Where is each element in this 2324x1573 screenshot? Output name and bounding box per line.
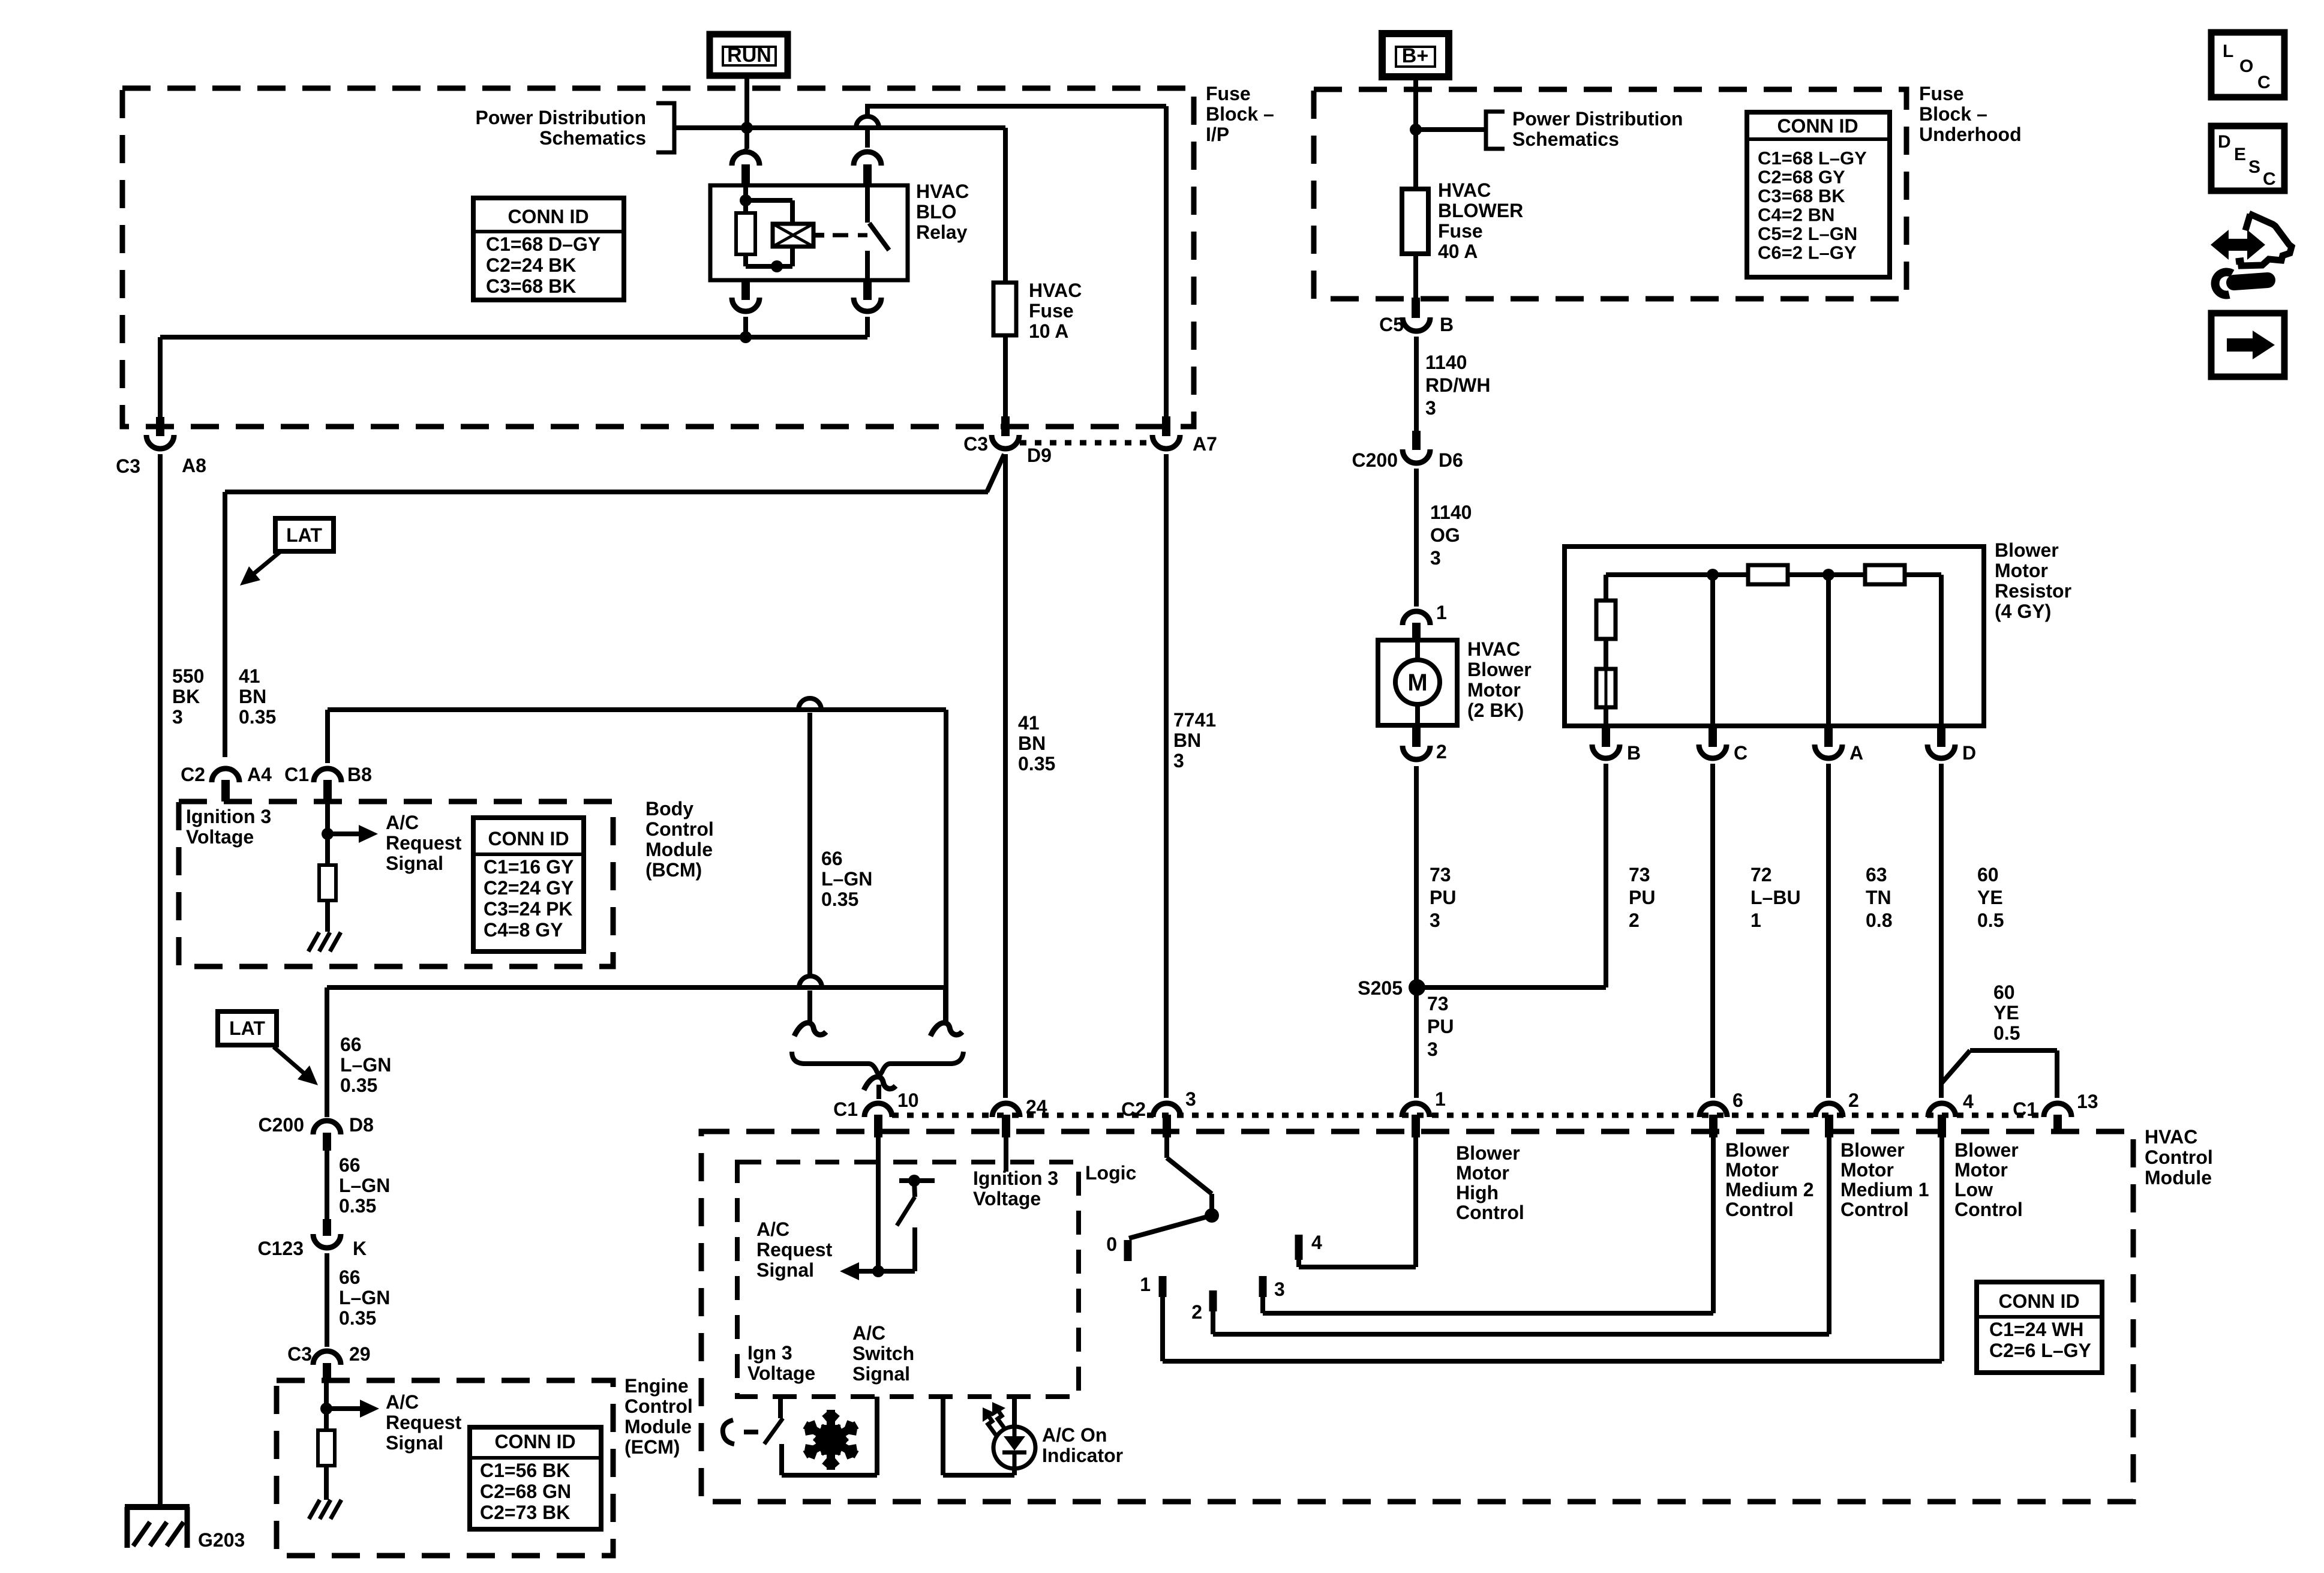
node relay coil return junction — [740, 331, 752, 343]
label 63 TN 0.8 — [1866, 864, 1892, 931]
relay coil to switch dashed link — [813, 233, 867, 238]
svg-text:Control: Control — [1840, 1199, 1909, 1220]
svg-text:O: O — [2239, 56, 2253, 76]
node junction RUN/power-dist — [741, 122, 753, 134]
fuse block I/P dashed box — [122, 88, 1194, 427]
svg-text:PU: PU — [1430, 887, 1456, 908]
label A/C On Indicator — [1042, 1424, 1123, 1466]
svg-text:HVAC: HVAC — [916, 181, 969, 202]
svg-text:13: 13 — [2077, 1091, 2098, 1112]
svg-text:66: 66 — [821, 848, 843, 869]
thermal limiter element — [1596, 639, 1616, 726]
svg-text:PU: PU — [1427, 1016, 1454, 1037]
svg-text:A/C: A/C — [852, 1322, 885, 1344]
resistor pin D — [1927, 726, 1976, 764]
I/P CONN ID table — [473, 198, 624, 300]
svg-text:A7: A7 — [1193, 433, 1217, 455]
logic dashed box — [737, 1162, 1079, 1397]
wire motor to S205 — [1414, 766, 1419, 1098]
svg-text:0.35: 0.35 — [821, 888, 858, 910]
svg-text:M: M — [1407, 670, 1427, 696]
underhood CONN ID table — [1747, 112, 1890, 277]
label 7741 BN 3 — [1173, 709, 1216, 772]
svg-text:Low: Low — [1954, 1179, 1993, 1200]
AC On indicator loop — [943, 1397, 1014, 1475]
svg-text:Fuse: Fuse — [1438, 220, 1483, 242]
svg-text:0.5: 0.5 — [1993, 1022, 2020, 1044]
label A/C Request Signal (ECM) — [386, 1391, 462, 1454]
svg-text:C3=68 BK: C3=68 BK — [486, 275, 576, 297]
svg-text:C2=6 L–GY: C2=6 L–GY — [1989, 1340, 2091, 1361]
svg-text:41: 41 — [239, 665, 260, 687]
svg-text:LAT: LAT — [286, 524, 322, 546]
svg-text:A8: A8 — [182, 455, 206, 476]
svg-text:A/C: A/C — [386, 812, 419, 833]
ground G203 — [125, 1507, 190, 1548]
svg-text:3: 3 — [1430, 547, 1441, 569]
svg-text:C6=2 L–GY: C6=2 L–GY — [1758, 242, 1857, 263]
svg-text:BN: BN — [1018, 733, 1046, 754]
svg-text:Request: Request — [756, 1239, 833, 1260]
svg-text:Control: Control — [1725, 1199, 1794, 1220]
svg-text:C3: C3 — [963, 433, 988, 455]
svg-text:L–GN: L–GN — [339, 1175, 390, 1196]
svg-text:Fuse: Fuse — [1029, 300, 1074, 322]
svg-text:Module: Module — [2145, 1167, 2212, 1188]
connector dotted link D9-A7 — [1020, 440, 1152, 446]
svg-text:HVAC: HVAC — [2145, 1126, 2197, 1148]
svg-text:C123: C123 — [258, 1238, 304, 1259]
label A/C Request Signal (BCM) — [386, 812, 462, 874]
wire S205 to resistor B — [1417, 764, 1606, 987]
svg-text:Blower: Blower — [1840, 1139, 1905, 1161]
svg-text:C1=24 WH: C1=24 WH — [1989, 1319, 2083, 1340]
svg-text:Request: Request — [386, 832, 462, 854]
svg-text:Module: Module — [624, 1416, 692, 1437]
svg-text:Fuse: Fuse — [1206, 83, 1251, 104]
svg-text:Control: Control — [1954, 1199, 2023, 1220]
label Blower Motor Medium 1 Control — [1840, 1139, 1929, 1220]
svg-text:Medium 2: Medium 2 — [1725, 1179, 1814, 1200]
AC request arrow (logic) — [840, 1262, 878, 1280]
svg-text:L–GN: L–GN — [339, 1287, 390, 1308]
svg-text:0.5: 0.5 — [1977, 909, 2004, 931]
svg-text:A4: A4 — [247, 764, 272, 785]
icon double arrow — [2211, 230, 2265, 260]
HVAC control module dashed box — [701, 1131, 2133, 1502]
svg-text:D: D — [1962, 742, 1976, 764]
label Ignition 3 Voltage (BCM) — [186, 806, 271, 848]
icon arrow box — [2211, 313, 2284, 377]
selector contact 1 — [1140, 1274, 1163, 1297]
svg-text:72: 72 — [1750, 864, 1772, 885]
svg-text:Motor: Motor — [1840, 1159, 1894, 1181]
svg-text:LAT: LAT — [229, 1017, 265, 1039]
label HVAC BLO Relay — [916, 181, 969, 243]
wire 550 BK 3 (A8 to G203) — [158, 454, 163, 1507]
svg-text:Power Distribution: Power Distribution — [1512, 108, 1683, 130]
svg-text:A/C On: A/C On — [1042, 1424, 1107, 1446]
label HVAC Control Module — [2145, 1126, 2213, 1188]
svg-text:D: D — [2218, 132, 2231, 152]
AC request switch (logic) — [872, 1137, 935, 1277]
connector 6 — [1700, 1089, 1743, 1137]
svg-text:0: 0 — [1106, 1233, 1117, 1255]
svg-text:RD/WH: RD/WH — [1425, 374, 1490, 396]
svg-text:Motor: Motor — [1467, 679, 1521, 701]
svg-text:C1=56 BK: C1=56 BK — [480, 1460, 570, 1481]
selector contact 0 — [1106, 1233, 1128, 1261]
label Engine Control Module ECM — [624, 1375, 693, 1458]
label 72 L-BU 1 — [1750, 864, 1801, 931]
relay switch top pin connector — [854, 130, 881, 185]
svg-text:C: C — [2257, 73, 2271, 92]
svg-text:C2=24 BK: C2=24 BK — [486, 254, 576, 276]
svg-text:3: 3 — [1274, 1278, 1285, 1300]
svg-text:0.35: 0.35 — [239, 706, 276, 728]
label Blower Motor Low Control — [1954, 1139, 2023, 1220]
svg-text:Signal: Signal — [386, 852, 443, 874]
connector 24 — [992, 1096, 1047, 1172]
wire 41 BN 0.35 (D9 to pin24) — [1003, 454, 1008, 1098]
svg-text:C: C — [1734, 742, 1747, 764]
svg-text:Ignition 3: Ignition 3 — [973, 1167, 1058, 1189]
label Ign 3 Voltage — [747, 1342, 815, 1384]
svg-text:0.35: 0.35 — [339, 1307, 376, 1329]
wire junction to HVAC fuse — [686, 125, 1005, 130]
wire resistor C to module pin6 — [1710, 764, 1715, 1098]
svg-text:C1=68 D–GY: C1=68 D–GY — [486, 233, 600, 255]
svg-text:HVAC: HVAC — [1438, 179, 1491, 201]
HVAC blower motor box — [1378, 640, 1457, 725]
label 73 PU 2 — [1629, 864, 1655, 931]
ECM CONN ID table — [470, 1427, 601, 1529]
label Ignition 3 Voltage (logic) — [973, 1167, 1058, 1209]
svg-text:Motor: Motor — [1456, 1162, 1509, 1184]
wire 1140 OG — [1414, 469, 1419, 607]
label 1140 OG 3 — [1430, 502, 1472, 569]
label Fuse Block I/P — [1206, 83, 1274, 145]
svg-text:40 A: 40 A — [1438, 241, 1478, 262]
svg-text:C2: C2 — [181, 764, 205, 785]
wire resistor A to module pin2 — [1826, 764, 1831, 1098]
wire 41 BN 0.35 (D9 to BCM A4) — [225, 454, 1004, 757]
resistor element R2 horizontal — [1865, 565, 1905, 584]
svg-text:550: 550 — [172, 665, 204, 687]
svg-text:Blower: Blower — [1954, 1139, 2019, 1161]
svg-text:BLOWER: BLOWER — [1438, 200, 1523, 221]
connector C1 10 — [833, 1089, 919, 1137]
svg-text:Blower: Blower — [1467, 659, 1532, 680]
svg-text:C: C — [2263, 169, 2276, 189]
svg-text:3: 3 — [172, 706, 183, 728]
AC compressor switch (module) — [723, 1397, 783, 1444]
label Fuse Block Underhood — [1919, 83, 2022, 145]
fuse HVAC 10A — [993, 128, 1016, 418]
svg-text:C5=2 L–GN: C5=2 L–GN — [1758, 223, 1857, 244]
svg-text:1140: 1140 — [1430, 502, 1472, 523]
blower selector pivot — [1205, 1208, 1219, 1223]
svg-text:Blower: Blower — [1456, 1142, 1520, 1164]
relay coil link wires — [746, 200, 792, 272]
label 66 L-GN 0.35 (mid) — [339, 1154, 390, 1217]
svg-text:2: 2 — [1629, 909, 1640, 931]
svg-text:Schematics: Schematics — [1512, 128, 1619, 150]
fuse block underhood dashed box — [1314, 89, 1906, 299]
ECM ground — [309, 1466, 341, 1519]
relay coil bottom pin connector — [732, 280, 759, 337]
selector contact 2 — [1191, 1290, 1213, 1323]
svg-text:L–GN: L–GN — [340, 1054, 391, 1076]
svg-text:TN: TN — [1866, 887, 1891, 908]
svg-text:4: 4 — [1963, 1091, 1974, 1112]
module CONN ID table — [1977, 1282, 2102, 1373]
connector C3 A8 — [116, 417, 206, 477]
svg-text:1140: 1140 — [1425, 352, 1467, 373]
svg-text:B8: B8 — [347, 764, 372, 785]
svg-text:BK: BK — [172, 686, 200, 707]
label Blower Motor High Control — [1456, 1142, 1524, 1223]
svg-text:RUN: RUN — [727, 44, 771, 67]
svg-text:A/C: A/C — [756, 1218, 789, 1240]
motor pin 2 connector — [1403, 725, 1447, 763]
callout LAT 2 — [218, 1011, 318, 1085]
svg-text:Request: Request — [386, 1412, 462, 1433]
svg-text:Fuse: Fuse — [1919, 83, 1964, 104]
svg-text:HVAC: HVAC — [1467, 638, 1520, 660]
svg-text:60: 60 — [1977, 864, 1999, 885]
svg-text:1: 1 — [1750, 909, 1761, 931]
resistor element vertical — [1596, 601, 1616, 639]
label A/C Request Signal (logic) — [756, 1218, 833, 1281]
splice brace — [792, 1052, 963, 1076]
svg-text:BN: BN — [1173, 730, 1201, 751]
svg-text:C2=24 GY: C2=24 GY — [484, 877, 574, 899]
wire resistor D to module pin4 — [1939, 764, 1944, 1098]
icon wrench — [2215, 272, 2268, 295]
svg-text:C5: C5 — [1379, 314, 1404, 335]
BCM ground — [308, 900, 341, 951]
icon LOC box — [2211, 32, 2284, 97]
relay coil top pin connector — [732, 149, 759, 185]
svg-text:0.8: 0.8 — [1866, 909, 1892, 931]
blower selector feed — [1167, 1137, 1212, 1213]
svg-text:High: High — [1456, 1182, 1499, 1203]
selector contact 4 — [1299, 1232, 1322, 1260]
connector C1 B8 — [284, 764, 372, 801]
splice output curl — [864, 1077, 896, 1090]
svg-text:Motor: Motor — [1725, 1159, 1779, 1181]
svg-text:10 A: 10 A — [1029, 320, 1068, 342]
svg-text:Medium 1: Medium 1 — [1840, 1179, 1929, 1200]
selector contact 3 — [1263, 1276, 1285, 1300]
resistor inner branch C — [1710, 575, 1715, 726]
connector 1 — [1402, 1088, 1446, 1137]
label 41 BN 0.35 — [239, 665, 276, 728]
resistor inner branch A — [1826, 575, 1831, 726]
svg-text:Control: Control — [624, 1395, 693, 1417]
label HVAC Blower Motor (2 BK) — [1467, 638, 1532, 721]
svg-text:Voltage: Voltage — [747, 1362, 815, 1384]
svg-text:Engine: Engine — [624, 1375, 689, 1397]
connector 4 — [1928, 1091, 1974, 1137]
label A/C Switch Signal — [852, 1322, 914, 1385]
svg-text:Motor: Motor — [1954, 1159, 2008, 1181]
svg-text:HVAC: HVAC — [1029, 280, 1082, 301]
svg-text:3: 3 — [1185, 1088, 1196, 1110]
svg-text:D8: D8 — [349, 1114, 374, 1136]
label Power Distribution Schematics (right) — [1512, 108, 1683, 150]
snowflake A/C symbol — [805, 1410, 857, 1470]
resistor pin C — [1699, 726, 1747, 764]
svg-text:K: K — [353, 1238, 367, 1259]
svg-text:C1=16 GY: C1=16 GY — [484, 856, 574, 878]
label Body Control Module BCM — [645, 798, 714, 881]
motor pin 1 connector — [1403, 602, 1447, 640]
connector C2 A4 — [181, 764, 272, 801]
svg-text:OG: OG — [1430, 524, 1460, 546]
svg-text:I/P: I/P — [1206, 124, 1229, 145]
svg-text:66: 66 — [339, 1266, 361, 1288]
label 1140 RD/WH 3 — [1425, 352, 1490, 419]
svg-text:Block –: Block – — [1206, 103, 1274, 125]
svg-text:0.35: 0.35 — [340, 1074, 377, 1096]
svg-text:B: B — [1440, 314, 1454, 335]
ECM A/C request wire — [320, 1380, 379, 1430]
svg-text:1: 1 — [1435, 1088, 1446, 1110]
svg-text:3: 3 — [1427, 1038, 1438, 1060]
svg-text:YE: YE — [1993, 1002, 2019, 1023]
svg-text:(4 GY): (4 GY) — [1995, 601, 2051, 622]
svg-text:E: E — [2234, 145, 2246, 164]
svg-text:S: S — [2248, 157, 2260, 177]
svg-text:6: 6 — [1733, 1089, 1743, 1111]
svg-text:C4=2 BN: C4=2 BN — [1758, 205, 1834, 226]
svg-text:66: 66 — [340, 1034, 362, 1055]
svg-text:3: 3 — [1430, 909, 1440, 931]
svg-text:YE: YE — [1977, 887, 2003, 908]
svg-text:C2=68 GY: C2=68 GY — [1758, 167, 1845, 188]
battery terminal B+ box — [1382, 34, 1449, 77]
relay switch bottom pin connector — [854, 280, 881, 337]
svg-text:2: 2 — [1191, 1301, 1202, 1323]
connector C3 D9 — [963, 416, 1052, 466]
relay HVAC BLO box — [710, 185, 908, 280]
svg-text:CONN ID: CONN ID — [494, 1431, 575, 1452]
connector C200 D6 — [1352, 431, 1463, 471]
wire contact2 to pin2 — [1213, 1137, 1829, 1334]
svg-text:4: 4 — [1311, 1232, 1322, 1253]
svg-text:Voltage: Voltage — [973, 1188, 1041, 1209]
svg-text:Signal: Signal — [386, 1432, 443, 1454]
relay switch contacts — [867, 185, 889, 280]
svg-text:73: 73 — [1629, 864, 1650, 885]
svg-text:Body: Body — [645, 798, 693, 819]
svg-text:Signal: Signal — [852, 1363, 910, 1385]
svg-text:29: 29 — [349, 1343, 371, 1365]
svg-text:Block –: Block – — [1919, 103, 1987, 125]
svg-text:CONN ID: CONN ID — [488, 828, 569, 849]
svg-text:Blower: Blower — [1725, 1139, 1789, 1161]
svg-text:C1=68 L–GY: C1=68 L–GY — [1758, 148, 1867, 169]
svg-text:C3: C3 — [287, 1343, 312, 1365]
BCM CONN ID table — [473, 818, 584, 951]
svg-text:1: 1 — [1436, 602, 1447, 623]
label Blower Motor Resistor (4 GY) — [1995, 539, 2071, 622]
relay coil box — [773, 224, 813, 247]
svg-text:2: 2 — [1848, 1089, 1859, 1111]
svg-text:CONN ID: CONN ID — [1777, 115, 1858, 137]
svg-text:C1: C1 — [2013, 1098, 2037, 1120]
svg-text:C200: C200 — [1352, 449, 1398, 471]
svg-text:66: 66 — [339, 1154, 361, 1176]
svg-text:D6: D6 — [1439, 449, 1463, 471]
label 73 PU 3 (upper) — [1430, 864, 1456, 931]
wire contact3 to pin6 — [1263, 1137, 1713, 1313]
svg-text:B+: B+ — [1402, 44, 1428, 67]
wire hop at brace left — [799, 976, 822, 1023]
splice curl left — [794, 1023, 826, 1036]
svg-text:1: 1 — [1140, 1274, 1151, 1295]
connector C123 K — [258, 1151, 367, 1259]
svg-text:C2=73 BK: C2=73 BK — [480, 1502, 570, 1523]
connector C5 B — [1379, 298, 1454, 335]
label Power Distribution Schematics (left) — [476, 107, 646, 149]
svg-text:A/C: A/C — [386, 1391, 419, 1413]
svg-text:Indicator: Indicator — [1042, 1445, 1123, 1466]
BCM A/C request wire — [322, 801, 378, 865]
svg-text:73: 73 — [1430, 864, 1451, 885]
svg-text:(2 BK): (2 BK) — [1467, 700, 1524, 721]
svg-text:0.35: 0.35 — [1018, 753, 1055, 775]
node junction B+ — [1410, 124, 1422, 136]
svg-text:C2: C2 — [1121, 1098, 1146, 1120]
connector 2 — [1815, 1089, 1859, 1137]
label HVAC Fuse 10 A — [1029, 280, 1082, 342]
svg-text:Underhood: Underhood — [1919, 124, 2022, 145]
BCM resistor — [319, 865, 336, 900]
label 73 PU 3 (lower) — [1427, 993, 1454, 1060]
svg-text:24: 24 — [1026, 1096, 1047, 1118]
fuse HVAC BLOWER 40A — [1402, 189, 1428, 298]
svg-text:L: L — [2223, 41, 2233, 61]
svg-text:3: 3 — [1173, 750, 1184, 772]
svg-text:C3: C3 — [116, 455, 140, 477]
svg-text:A: A — [1849, 742, 1863, 764]
svg-text:2: 2 — [1436, 741, 1447, 763]
svg-text:7741: 7741 — [1173, 709, 1216, 731]
relay coil resistor branch — [736, 185, 755, 266]
wire 1140 RD/WH — [1414, 337, 1419, 431]
svg-text:41: 41 — [1018, 712, 1040, 734]
svg-text:C4=8 GY: C4=8 GY — [484, 919, 563, 941]
label 60 YE 0.5 — [1977, 864, 2004, 931]
connector A7 — [1152, 416, 1217, 455]
wire contact4 to pin1 — [1299, 1137, 1416, 1267]
resistor pin B — [1592, 726, 1641, 764]
label 66 L-GN 0.35 (splice) — [821, 848, 872, 910]
svg-text:C1: C1 — [833, 1098, 858, 1120]
svg-text:Control: Control — [1456, 1202, 1524, 1223]
power distribution schematics bracket (right) — [1416, 112, 1505, 149]
ECM resistor — [318, 1430, 335, 1466]
wire B+ to fuse — [1413, 77, 1418, 189]
svg-text:Control: Control — [2145, 1146, 2213, 1168]
connector C2 3 — [1121, 1088, 1196, 1137]
label 550 BK 3 — [172, 665, 204, 728]
svg-text:Resistor: Resistor — [1995, 580, 2071, 602]
svg-text:L–GN: L–GN — [821, 868, 872, 890]
